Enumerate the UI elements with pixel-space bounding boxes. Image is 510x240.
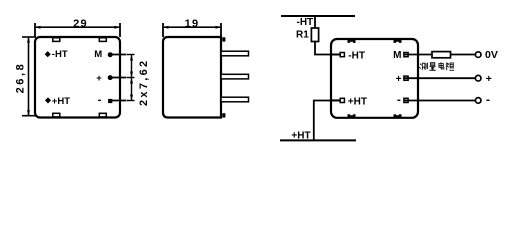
dimension 2x7.62 line — [131, 55, 133, 101]
dimension 26.8 arrow top — [27, 37, 30, 43]
pin dot M — [108, 52, 113, 57]
svg-text:+: + — [96, 73, 102, 84]
side pin M — [221, 51, 249, 56]
电 — [439, 62, 444, 69]
dimension 2x7.62 tick row + — [127, 77, 135, 79]
svg-text:0V: 0V — [485, 49, 498, 61]
+ terminal circle — [475, 75, 481, 81]
side pin + — [221, 74, 249, 79]
0V terminal circle — [475, 52, 481, 58]
dimension 19 arrow left — [163, 26, 169, 29]
pin label -HT with polarity diamond — [45, 51, 51, 57]
dimension 19 line — [163, 26, 221, 28]
wire R1 to -HT pin — [315, 42, 339, 55]
wire resistor to 0V terminal — [451, 54, 476, 56]
measuring resistor — [432, 52, 451, 58]
dimension 26.8 arrow bottom — [27, 110, 30, 116]
pin dot - — [108, 99, 112, 103]
mounting notch top-right — [99, 38, 106, 42]
dimension 19 extension line left — [162, 23, 164, 37]
dimension 2x7.62 arrows — [130, 55, 133, 61]
terminal -HT (schematic) — [331, 54, 340, 56]
量 — [429, 63, 435, 71]
wire M to measuring resistor — [404, 54, 432, 56]
svg-text:26,8: 26,8 — [14, 62, 26, 94]
dimension 26.8 extension line bottom — [22, 115, 36, 117]
pin stub + — [109, 77, 127, 79]
side pin - — [221, 97, 249, 102]
pin stub - — [109, 100, 127, 102]
svg-text:-HT: -HT — [348, 51, 365, 62]
阻 — [447, 63, 454, 71]
wire rail to R1 — [314, 16, 316, 28]
-HT supply rail — [281, 15, 355, 17]
svg-text:-HT: -HT — [297, 17, 314, 28]
svg-text:-: - — [486, 93, 490, 107]
dimension 26.8 extension line top — [22, 36, 36, 38]
notch bottom-left — [348, 114, 356, 117]
side mounting tab bottom — [222, 113, 225, 117]
svg-text:-HT: -HT — [52, 49, 68, 60]
测 — [419, 63, 427, 70]
dimension 29 extension line right — [119, 23, 121, 37]
wire + to terminal — [404, 77, 475, 79]
- terminal circle — [475, 98, 481, 104]
wire +HT pin to +HT rail — [314, 101, 339, 141]
svg-text:19: 19 — [185, 18, 200, 30]
mounting notch bottom-left — [53, 113, 60, 117]
dimension 29 line — [35, 26, 120, 28]
pin label +HT with polarity diamond — [45, 97, 51, 103]
svg-text:M: M — [393, 50, 401, 61]
svg-text:+: + — [486, 73, 492, 85]
svg-text:29: 29 — [73, 18, 88, 30]
svg-text:+HT: +HT — [52, 96, 70, 107]
dimension 29 extension line left — [34, 23, 36, 37]
svg-text:+: + — [396, 74, 402, 85]
package body front view — [35, 37, 120, 118]
package body side view — [163, 37, 221, 118]
svg-text:+HT: +HT — [291, 130, 310, 141]
wire - to terminal — [404, 100, 475, 102]
notch bottom-right — [394, 114, 402, 117]
notch top-left — [348, 40, 356, 43]
dimension 19 extension line right — [220, 23, 222, 37]
terminal +HT (schematic) — [331, 99, 340, 101]
mounting notch bottom-right — [99, 113, 106, 117]
dimension 26.8 line — [28, 37, 30, 116]
svg-text:2x7,62: 2x7,62 — [138, 59, 150, 106]
dimension 19 arrow right — [216, 26, 222, 29]
module body (schematic) — [331, 39, 418, 118]
svg-text:+HT: +HT — [348, 96, 367, 107]
svg-text:M: M — [94, 49, 102, 60]
dimension 29 arrow right — [115, 26, 121, 29]
measuring resistor label (hand-drawn CJK) — [419, 62, 454, 70]
svg-text:-: - — [98, 94, 102, 106]
pin stub M — [109, 54, 127, 56]
side mounting tab top — [222, 37, 225, 41]
svg-text:R1: R1 — [296, 30, 309, 41]
mounting notch top-left — [53, 38, 60, 42]
dimension 29 arrow left — [35, 26, 41, 29]
+HT supply rail — [280, 139, 356, 141]
dimension 2x7.62 tick row M — [127, 54, 135, 56]
notch top-right — [394, 40, 402, 43]
dimension 2x7.62 tick row - — [127, 100, 135, 102]
svg-text:-: - — [397, 95, 401, 107]
resistor R1 — [311, 28, 318, 42]
pin dot + — [108, 75, 113, 80]
